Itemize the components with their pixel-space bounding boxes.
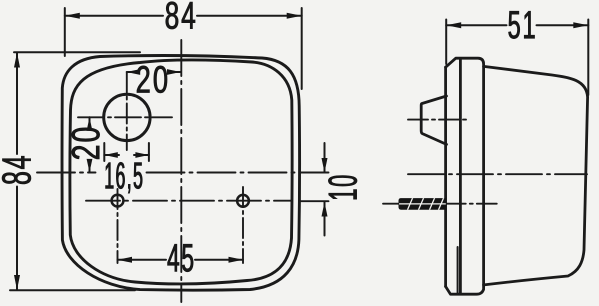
mounting hole right [237, 195, 249, 207]
dimension 84 left: dimension line [16, 53, 18, 291]
side view flange bottom edge [446, 285, 484, 294]
front view horizontal centerline [37, 172, 329, 174]
arrow 16,5 left [104, 152, 118, 158]
front view vertical centerline [180, 40, 182, 302]
label 84 left [2, 156, 31, 184]
label 84 top [166, 2, 195, 29]
arrow 51 left [446, 22, 461, 28]
side view stud centerline tail [383, 203, 399, 205]
arrow 20 horizontal left [127, 69, 141, 75]
mounting hole left vertical centerline [117, 189, 119, 263]
mounting hole left [112, 195, 124, 207]
side view flange mid vertical line [459, 58, 462, 294]
mounting hole right vertical centerline [242, 187, 244, 263]
side view main horizontal centerline [408, 173, 587, 175]
side view flange inner wall line [457, 247, 459, 294]
label 45 [168, 244, 194, 271]
arrow 84 left bottom [14, 275, 20, 290]
arrow 20 vertical top [87, 117, 93, 131]
dimension 51: dimension line [446, 24, 588, 26]
arrow 45 left [118, 257, 133, 263]
front view outer outline [62, 55, 300, 290]
label 16,5 [106, 162, 143, 193]
arrow 20 vertical bottom [87, 159, 93, 173]
arrow 45 right [229, 257, 244, 263]
side view lens outline [484, 66, 588, 285]
dimension 20 vertical: dimension line [89, 117, 91, 172]
dimension 20 horizontal: dimension line [127, 71, 181, 73]
arrow 84 top right [287, 13, 302, 19]
arrow 84 top left [65, 13, 80, 19]
arrow 51 right [573, 22, 588, 28]
dimension 10: dimension line with stubs [324, 143, 326, 236]
arrow 10 top [322, 158, 328, 173]
arrow 84 left top [14, 53, 20, 68]
side view flange left edge [444, 67, 447, 286]
front view inner outline [70, 60, 292, 284]
bulb circle vertical centerline [126, 73, 128, 151]
dimension 45: dimension line [118, 259, 244, 261]
arrow 16,5 right [135, 152, 149, 158]
side view flange top chamfer and top edge [446, 58, 484, 285]
bulb circle horizontal centerline [78, 116, 172, 118]
mounting holes horizontal centerline [86, 200, 329, 203]
bulb hole circle [104, 94, 150, 140]
label 51 [509, 11, 535, 38]
arrow 20 horizontal right [167, 69, 181, 75]
dimension 16,5: extension lines [104, 143, 149, 161]
dimension 51: extension lines [446, 20, 588, 96]
label 20 vertical [72, 128, 100, 159]
side view stud line through housing [446, 203, 497, 205]
dimension texts [2, 2, 534, 272]
arrow 10 bottom [322, 202, 328, 217]
dimension 84 top: dimension line [65, 15, 302, 17]
side view bulb axis centerline [408, 119, 470, 121]
side view bulb holder bracket [421, 96, 446, 144]
mounting stud (threaded) [399, 197, 447, 211]
dimension 16,5: arrow tails [104, 154, 149, 156]
dimension 84 top: extension lines [65, 8, 302, 89]
label 20 horizontal [137, 66, 167, 93]
dimension 84 left: extension lines [10, 52, 140, 290]
label 10 [328, 176, 357, 200]
